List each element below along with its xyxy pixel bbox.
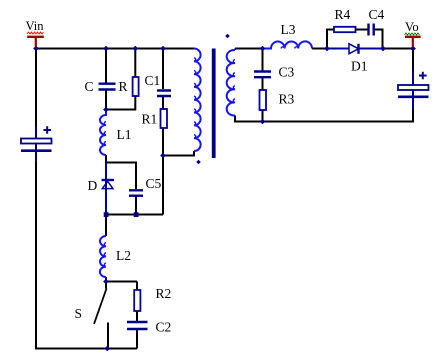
svg-text:L3: L3 xyxy=(281,22,296,37)
svg-text:R4: R4 xyxy=(335,7,351,22)
svg-text:L1: L1 xyxy=(117,127,132,142)
svg-text:C3: C3 xyxy=(279,65,295,80)
svg-text:Vin: Vin xyxy=(26,19,45,33)
svg-text:D1: D1 xyxy=(351,59,368,74)
svg-text:R1: R1 xyxy=(142,112,158,127)
svg-text:Vo: Vo xyxy=(405,20,419,34)
svg-text:C4: C4 xyxy=(369,7,385,22)
svg-text:R3: R3 xyxy=(279,92,295,107)
svg-text:C2: C2 xyxy=(156,320,172,335)
svg-text:C: C xyxy=(85,79,94,94)
svg-text:L2: L2 xyxy=(116,248,131,263)
svg-text:C5: C5 xyxy=(146,176,162,191)
svg-text:D: D xyxy=(88,178,98,193)
svg-text:S: S xyxy=(75,306,83,321)
svg-text:C1: C1 xyxy=(145,73,161,88)
svg-text:R2: R2 xyxy=(156,286,172,301)
svg-text:R: R xyxy=(119,79,128,94)
